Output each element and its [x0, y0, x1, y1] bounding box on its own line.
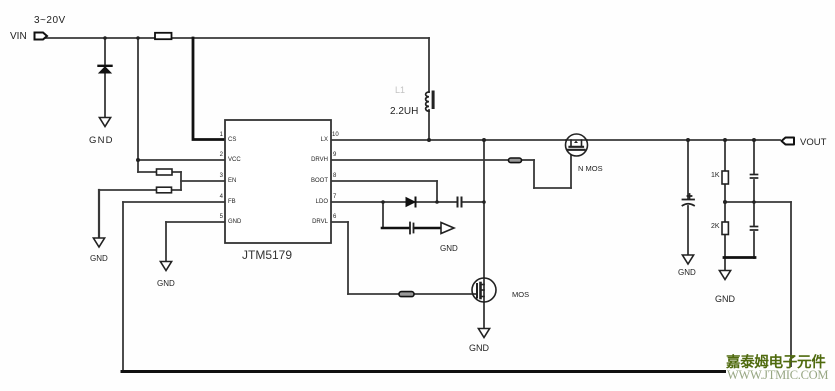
inductor L1	[426, 91, 435, 112]
IC pin labels right	[0, 137, 328, 143]
wire LX vertical to Q2	[483, 140, 485, 278]
wire GND pin5 down	[165, 222, 167, 261]
label GND divider	[715, 294, 735, 304]
ground output cap	[682, 255, 693, 264]
wire gate corner down	[533, 160, 535, 188]
capacitor C-out electrolytic	[683, 194, 695, 206]
transistor Q2 MOS	[472, 278, 496, 302]
label L1	[395, 85, 405, 95]
label R-div2 value	[711, 223, 720, 230]
pin numbers left	[0, 132, 223, 138]
wire gate resistor to Q2	[414, 293, 473, 295]
ground Q2	[478, 329, 489, 338]
wire LX line left	[331, 139, 566, 141]
wire R3 to ground	[98, 190, 100, 238]
wire gate up into Q1	[570, 150, 572, 188]
transistor Q1 N MOS	[566, 134, 588, 156]
label 3~20V	[34, 15, 66, 26]
wire BOOT pin8	[331, 180, 437, 182]
wire FB right vertical	[790, 202, 792, 372]
wire DRVL vertical	[347, 222, 349, 294]
wire CS thick vertical	[193, 38, 225, 140]
wire LDO cap tap down	[382, 202, 384, 228]
node dots	[103, 36, 756, 204]
pin numbers right	[332, 132, 339, 138]
label N MOS	[578, 164, 603, 173]
wire FB tap to right	[725, 201, 791, 203]
wire cap to LX vertical	[463, 201, 484, 203]
label JTM5179	[242, 248, 292, 262]
wire VCC pin2	[138, 159, 225, 161]
watermark url	[727, 368, 828, 383]
resistor R-div1	[722, 171, 728, 184]
wire divider bottom thick	[724, 256, 755, 259]
wire feedfwd cap branch	[753, 140, 755, 173]
label GND outcap	[678, 268, 696, 277]
wire top rail VIN	[46, 37, 429, 39]
wire DRVH pin9	[331, 159, 509, 161]
connector VOUT	[782, 138, 795, 145]
wire LDO cap thick run	[382, 227, 409, 230]
resistor R-en-gnd	[157, 187, 172, 193]
connector VIN	[35, 33, 48, 40]
resistor R-vcc-en	[157, 169, 173, 175]
wire BOOT down	[436, 181, 438, 202]
zener diode D1	[99, 66, 112, 73]
diode D2 bootstrap	[406, 198, 416, 207]
wire DRVL pin6	[331, 221, 348, 223]
label VIN	[10, 31, 27, 42]
label GND zener	[89, 135, 114, 146]
wire GND pin5	[166, 221, 225, 223]
wire LX line right to VOUT	[587, 139, 780, 141]
capacitor C-ff2	[751, 227, 758, 231]
capacitor C-ff1	[751, 175, 758, 179]
label GND en	[90, 254, 108, 263]
wire output cap branch	[687, 140, 689, 198]
label 2.2UH	[390, 106, 418, 117]
ground EN resistor	[93, 238, 104, 247]
wire diode to cap	[417, 201, 456, 203]
wire bottom rail thick	[122, 370, 727, 373]
resistor R-gate-Q2	[399, 292, 414, 297]
wire divider branch	[724, 140, 726, 171]
resistor R-div2	[722, 222, 728, 235]
ground under zener	[99, 118, 110, 127]
wire gate bottom run	[534, 187, 571, 189]
label GND q2	[469, 343, 489, 353]
wire inductor drop bottom	[428, 110, 430, 140]
label R-div1 value	[711, 172, 720, 179]
label GND pin5	[157, 279, 175, 288]
wire gate resistor to corner	[521, 159, 534, 161]
wire LDO pin7	[331, 201, 406, 203]
capacitor C-ldo plates	[410, 223, 414, 234]
wire FB pin4	[123, 201, 225, 203]
wire R3 row	[99, 189, 181, 191]
IC pin labels left	[228, 137, 236, 143]
wire zener branch	[104, 38, 106, 64]
ground divider	[719, 271, 730, 280]
watermark chinese	[726, 351, 825, 372]
wire to resistor R2	[138, 171, 181, 173]
wire Q2 source down	[483, 302, 485, 328]
ground pin5	[160, 262, 171, 271]
wire inductor drop top	[428, 38, 430, 92]
wire DRVL to gate resistor	[348, 293, 399, 295]
label MOS	[512, 290, 529, 299]
label VOUT	[800, 137, 826, 148]
wire EN pin3	[181, 180, 225, 182]
label GND ldo cap	[440, 244, 458, 253]
wire VCC branch vertical	[137, 38, 139, 172]
white halo behind watermark bottom line	[726, 367, 830, 384]
IC U1 JTM5179	[225, 120, 331, 243]
wire FB vertical down	[122, 202, 124, 372]
ground sideways (LDO cap)	[441, 223, 454, 234]
capacitor C-boot	[458, 198, 462, 207]
resistor R-top-rail	[155, 33, 172, 39]
resistor R-gate-Q1	[509, 158, 522, 163]
wire EN junction vertical	[180, 172, 182, 190]
